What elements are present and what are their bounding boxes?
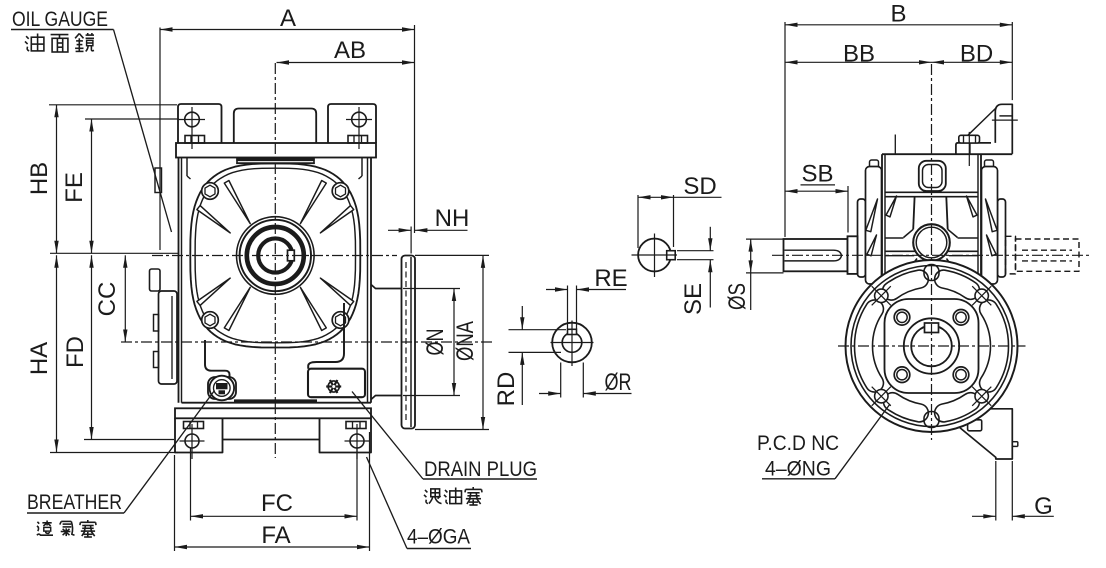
svg-text:AB: AB — [334, 37, 366, 64]
svg-text:ØR: ØR — [605, 369, 632, 396]
svg-text:SE: SE — [680, 283, 707, 315]
svg-text:G: G — [1034, 493, 1053, 520]
svg-text:BREATHER: BREATHER — [27, 491, 122, 514]
svg-text:A: A — [280, 5, 296, 32]
svg-text:BB: BB — [843, 41, 875, 68]
svg-text:FC: FC — [261, 490, 293, 517]
svg-text:ØN: ØN — [422, 329, 449, 356]
svg-text:BD: BD — [960, 41, 993, 68]
svg-text:4–ØGA: 4–ØGA — [407, 526, 470, 549]
svg-text:ØNA: ØNA — [452, 321, 479, 361]
svg-text:HA: HA — [26, 342, 53, 375]
svg-text:FE: FE — [61, 172, 88, 203]
svg-text:P.C.D NC: P.C.D NC — [757, 432, 839, 455]
svg-text:NH: NH — [435, 205, 470, 232]
svg-text:HB: HB — [26, 162, 53, 195]
svg-text:FA: FA — [261, 522, 290, 549]
svg-text:ØS: ØS — [724, 283, 751, 310]
svg-text:B: B — [890, 1, 906, 28]
svg-text:OIL GAUGE: OIL GAUGE — [12, 8, 108, 31]
svg-text:SB: SB — [801, 161, 833, 188]
svg-text:RD: RD — [493, 372, 520, 407]
svg-text:CC: CC — [94, 282, 121, 317]
svg-text:DRAIN PLUG: DRAIN PLUG — [424, 458, 537, 481]
svg-text:FD: FD — [62, 336, 89, 368]
svg-text:4–ØNG: 4–ØNG — [765, 458, 831, 481]
svg-text:SD: SD — [683, 173, 716, 200]
svg-text:RE: RE — [594, 265, 627, 292]
